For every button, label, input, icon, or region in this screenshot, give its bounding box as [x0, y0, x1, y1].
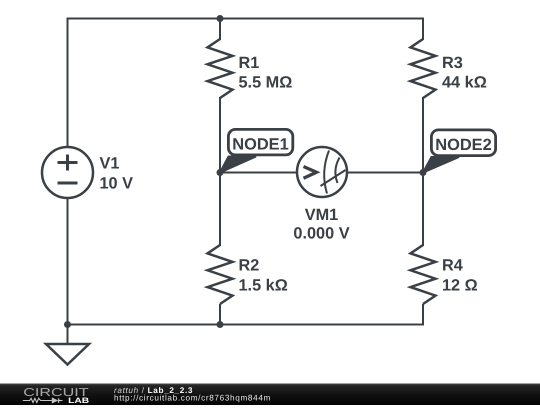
- svg-text:R2: R2: [239, 257, 260, 275]
- svg-text:12 Ω: 12 Ω: [442, 277, 478, 295]
- node NODE1 junction dot: [217, 169, 224, 176]
- voltmeter VM1: [297, 147, 347, 197]
- wire R3 to NODE2: [422, 98, 424, 173]
- node dot bottom middle junction: [217, 321, 224, 328]
- wire ground stem: [67, 325, 69, 345]
- svg-text:VM1: VM1: [305, 206, 338, 224]
- wire left vertical bottom (V1 to bottom rail): [67, 198, 69, 325]
- node NODE2 callout: [423, 130, 496, 173]
- footer title text: [114, 386, 271, 403]
- ground: [46, 344, 89, 365]
- svg-text:1.5 kΩ: 1.5 kΩ: [239, 277, 288, 295]
- node dot bottom left junction: [64, 321, 71, 328]
- wire NODE2 to R4: [422, 173, 424, 246]
- svg-text:NODE1: NODE1: [232, 135, 289, 153]
- wire voltmeter to NODE2: [348, 172, 423, 174]
- svg-text:NODE2: NODE2: [435, 136, 492, 154]
- resistor R1: [208, 39, 233, 98]
- CircuitLab logo: [23, 387, 90, 405]
- wire NODE1 to voltmeter: [220, 172, 296, 174]
- wire R4 to bottom rail: [422, 305, 424, 325]
- label V1 value: [100, 155, 134, 193]
- wire right branch: top lead to R3: [422, 19, 424, 40]
- footer bar: [0, 384, 540, 406]
- wire top horizontal: [68, 18, 424, 20]
- svg-text:http://circuitlab.com/cr8763hq: http://circuitlab.com/cr8763hqm844m: [114, 393, 271, 402]
- wire bottom horizontal rail: [68, 324, 424, 326]
- wire middle branch: top lead to R1: [219, 19, 221, 40]
- label R4 value: [442, 257, 478, 295]
- svg-text:V1: V1: [100, 155, 120, 173]
- wire NODE1 to R2: [219, 173, 221, 246]
- resistor R3: [411, 39, 436, 98]
- label VM1 value: [293, 206, 349, 243]
- svg-text:R3: R3: [442, 54, 463, 72]
- svg-text:LAB: LAB: [68, 396, 89, 405]
- svg-text:0.000 V: 0.000 V: [293, 225, 349, 243]
- label R1 value: [239, 54, 293, 92]
- label R3 value: [442, 54, 487, 92]
- wire left vertical top (to V1): [67, 19, 69, 148]
- node NODE2 junction dot: [420, 169, 427, 176]
- svg-text:10 V: 10 V: [100, 175, 134, 193]
- svg-text:44 kΩ: 44 kΩ: [442, 74, 487, 92]
- label R2 value: [239, 257, 288, 295]
- wire R2 to bottom rail: [219, 305, 221, 325]
- resistor R4: [411, 245, 436, 304]
- wire R1 to NODE1: [219, 98, 221, 173]
- resistor R2: [208, 245, 233, 304]
- svg-text:5.5 MΩ: 5.5 MΩ: [239, 74, 293, 92]
- svg-text:R1: R1: [239, 54, 260, 72]
- svg-text:R4: R4: [442, 257, 463, 275]
- voltage source V1: [42, 147, 93, 198]
- node NODE1 callout: [220, 129, 293, 172]
- node dot top (middle branch junction): [217, 15, 224, 22]
